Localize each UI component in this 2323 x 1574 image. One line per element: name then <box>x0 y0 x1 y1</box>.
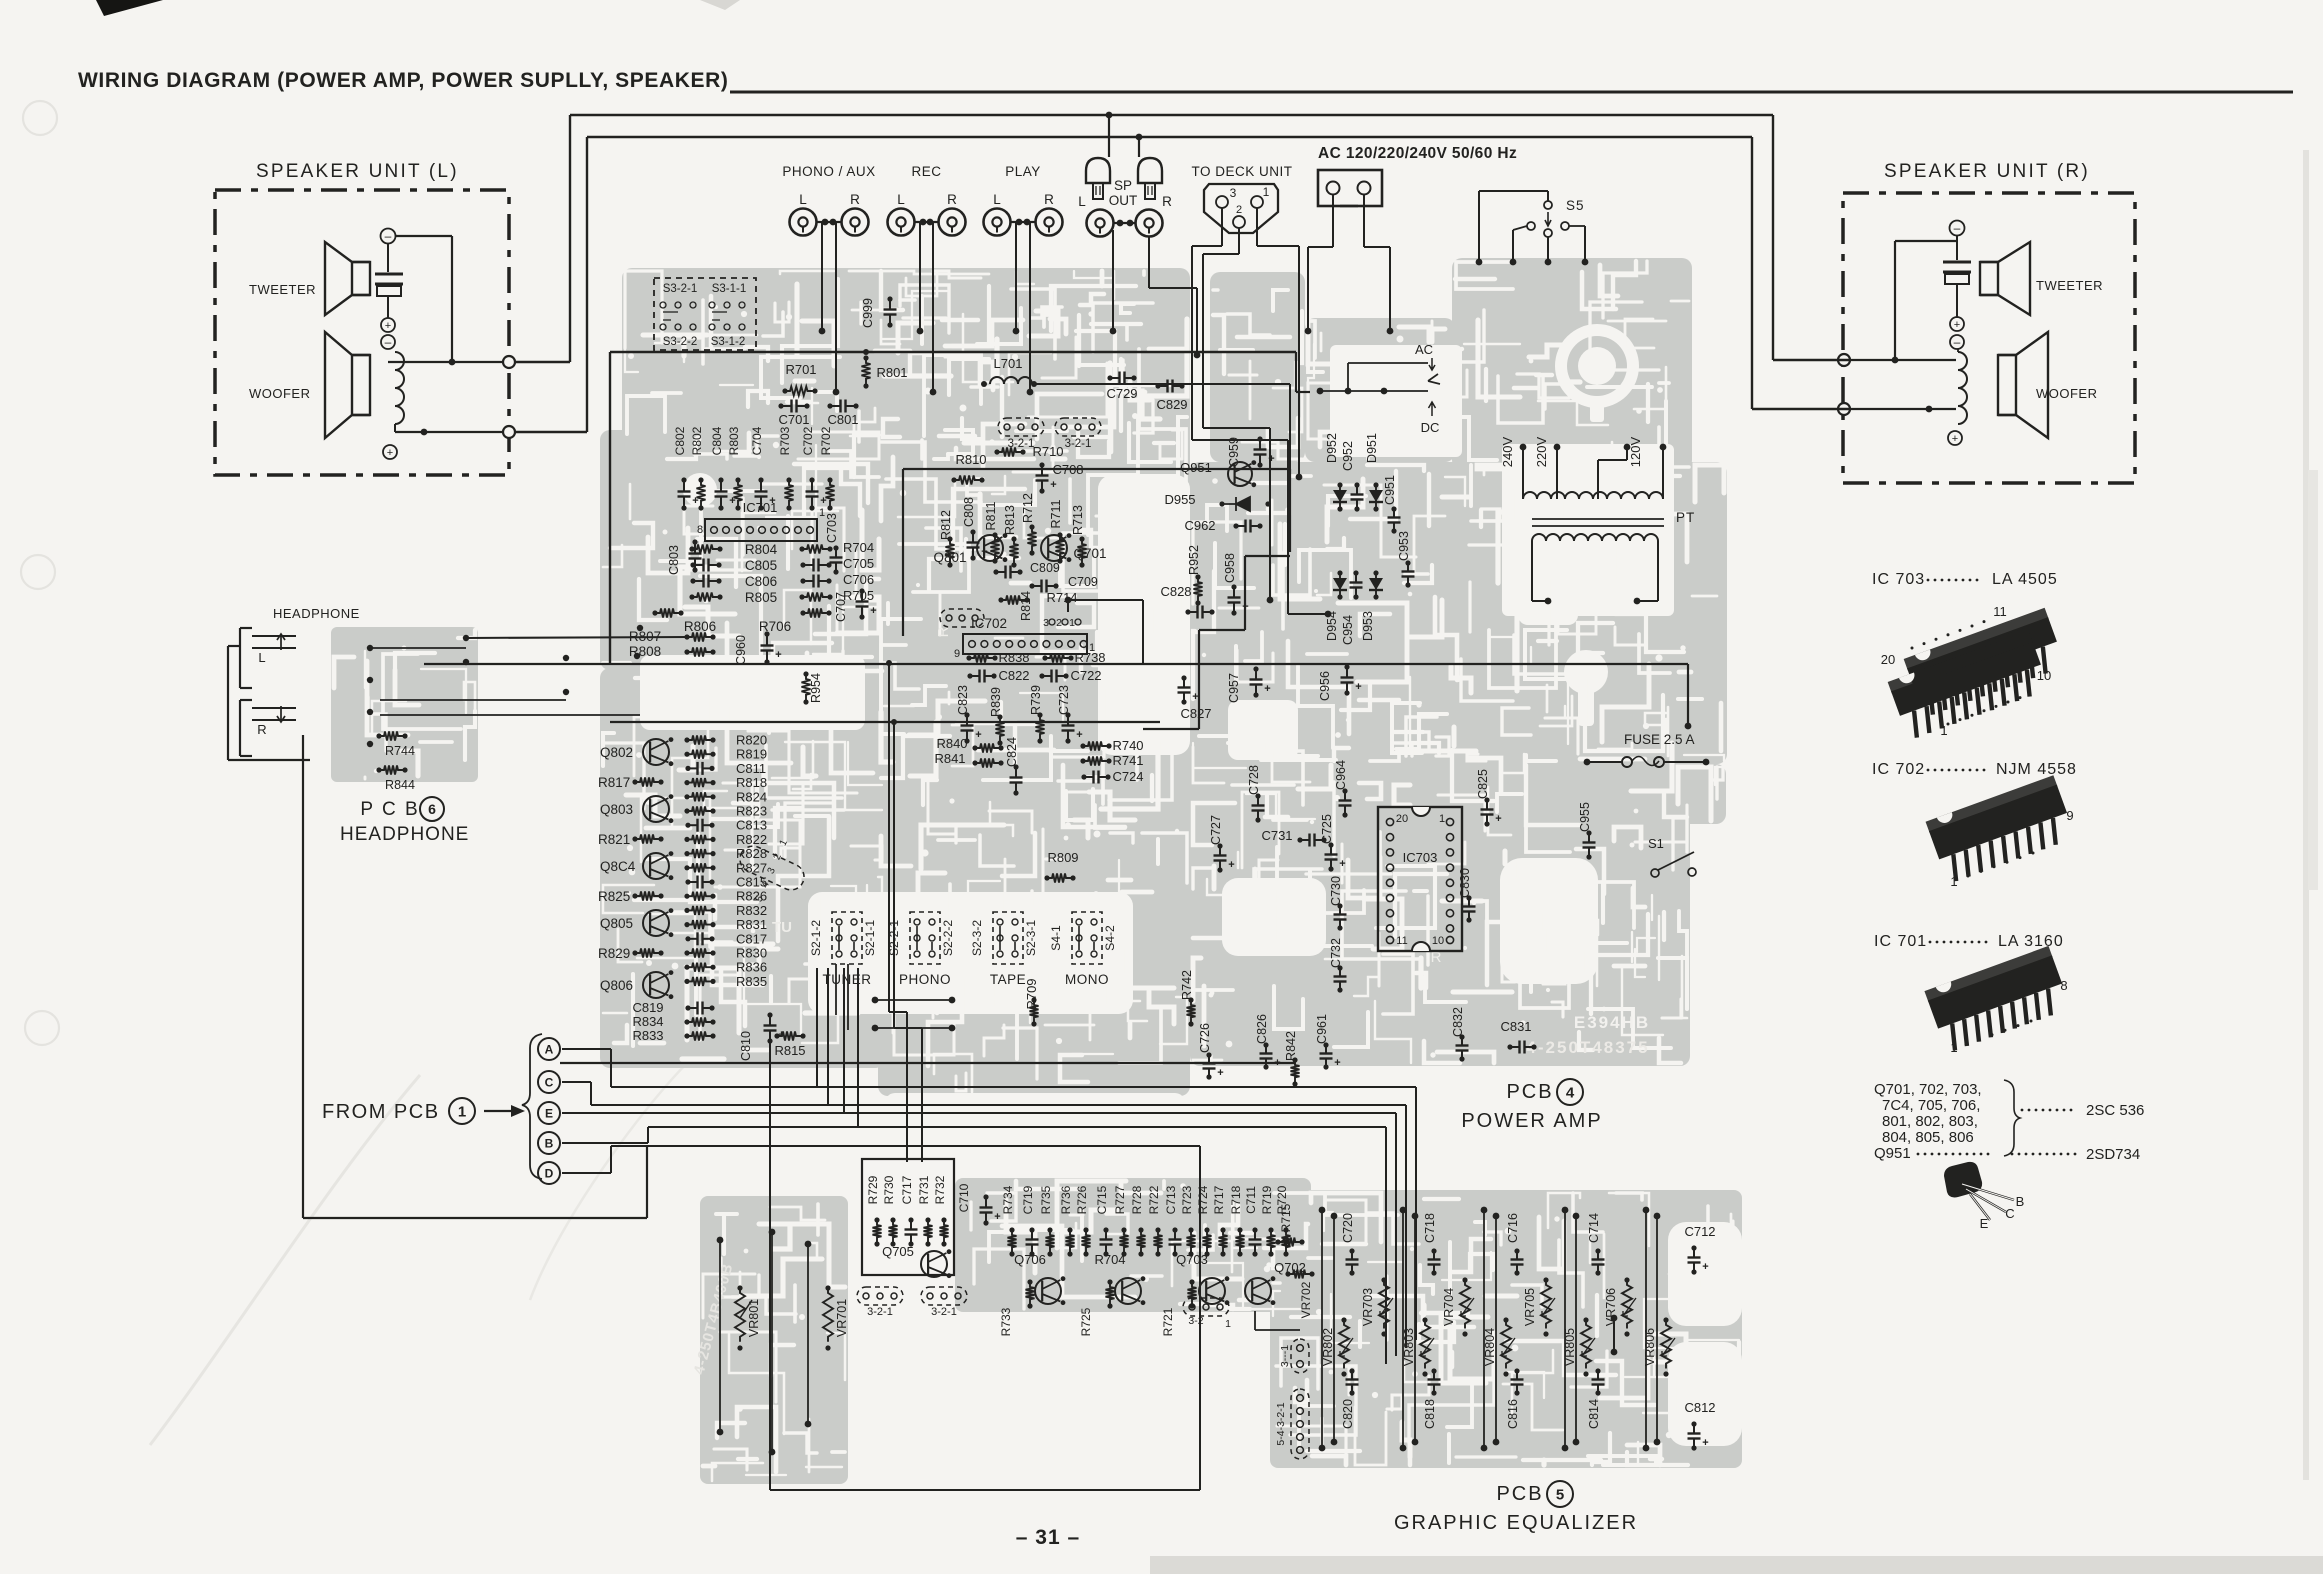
svg-text:E: E <box>1980 1216 1989 1231</box>
svg-text:+: + <box>975 729 981 741</box>
svg-text:R808: R808 <box>629 644 661 659</box>
svg-text:R805: R805 <box>745 590 777 605</box>
svg-text:S2-2-1: S2-2-1 <box>887 920 901 956</box>
svg-text:3-2-1: 3-2-1 <box>931 1306 957 1318</box>
svg-text:C712: C712 <box>1684 1224 1715 1239</box>
svg-text:L: L <box>897 192 905 207</box>
svg-text:R704: R704 <box>1094 1252 1125 1267</box>
svg-text:C722: C722 <box>1070 668 1101 683</box>
svg-text:TWEETER: TWEETER <box>2036 278 2103 293</box>
svg-text:R710: R710 <box>1032 444 1063 459</box>
svg-text:+: + <box>1076 729 1082 741</box>
svg-text:L: L <box>993 192 1001 207</box>
svg-text:R727: R727 <box>1113 1185 1127 1214</box>
svg-text:R736: R736 <box>1059 1185 1073 1214</box>
svg-text:R835: R835 <box>736 974 767 989</box>
svg-text:R741: R741 <box>1112 753 1143 768</box>
svg-text:Q705: Q705 <box>882 1244 914 1259</box>
svg-text:Q703: Q703 <box>1176 1252 1208 1267</box>
svg-text:8: 8 <box>2060 978 2067 993</box>
svg-text:C831: C831 <box>1500 1019 1531 1034</box>
svg-text:R831: R831 <box>736 917 767 932</box>
svg-text:R729: R729 <box>866 1175 880 1204</box>
svg-text:240V: 240V <box>1500 436 1515 467</box>
svg-text:D954: D954 <box>1325 611 1339 641</box>
svg-text:C726: C726 <box>1198 1023 1212 1053</box>
svg-text:3-2: 3-2 <box>1188 1315 1203 1327</box>
svg-text:1: 1 <box>1950 1040 1957 1055</box>
svg-text:PHONO / AUX: PHONO / AUX <box>782 164 875 179</box>
svg-text:IC703: IC703 <box>1403 850 1438 865</box>
svg-text:R821: R821 <box>598 832 630 847</box>
svg-text:FUSE 2.5 A: FUSE 2.5 A <box>1624 732 1695 747</box>
svg-text:Q806: Q806 <box>600 978 633 993</box>
svg-text:1: 1 <box>1940 723 1947 738</box>
svg-text:WIRING DIAGRAM (POWER AMP, PO: WIRING DIAGRAM (POWER AMP, POWER SUPLLY,… <box>78 69 729 92</box>
svg-text:R740: R740 <box>1112 738 1143 753</box>
svg-text:C802: C802 <box>673 426 687 455</box>
svg-text:R726: R726 <box>1075 1185 1089 1214</box>
svg-text:S2-3-2: S2-3-2 <box>970 920 984 956</box>
svg-text:R738: R738 <box>1074 650 1105 665</box>
svg-text:C824: C824 <box>1005 737 1019 767</box>
svg-text:R730: R730 <box>882 1175 896 1204</box>
svg-text:C955: C955 <box>1578 802 1592 832</box>
svg-text:2: 2 <box>1056 617 1062 629</box>
svg-text:C725: C725 <box>1320 814 1334 844</box>
svg-text:+: + <box>385 320 391 332</box>
svg-text:804, 805, 806: 804, 805, 806 <box>1882 1129 1974 1146</box>
svg-text:R833: R833 <box>632 1028 663 1043</box>
svg-text:L: L <box>799 192 807 207</box>
svg-text:C962: C962 <box>1184 518 1215 533</box>
svg-text:+: + <box>1702 1437 1708 1449</box>
svg-text:C818: C818 <box>1423 1399 1437 1429</box>
svg-text:C830: C830 <box>1458 868 1472 898</box>
svg-text:IC 701: IC 701 <box>1874 933 1927 950</box>
svg-text:– 31 –: – 31 – <box>1016 1526 1080 1549</box>
svg-text:+: + <box>1954 319 1960 331</box>
svg-text:PCB: PCB <box>1506 1081 1553 1103</box>
svg-text:PCB: PCB <box>1496 1483 1543 1505</box>
svg-text:TWEETER: TWEETER <box>249 282 316 297</box>
svg-text:PT: PT <box>1676 510 1695 525</box>
svg-text:5-4-3-2-1: 5-4-3-2-1 <box>1275 1402 1287 1445</box>
svg-text:Q803: Q803 <box>600 802 633 817</box>
svg-text:3-2-1: 3-2-1 <box>867 1306 893 1318</box>
svg-text:+: + <box>1339 858 1345 870</box>
svg-text:R744: R744 <box>385 744 415 758</box>
svg-text:C729: C729 <box>1106 386 1137 401</box>
svg-text:801, 802, 803,: 801, 802, 803, <box>1882 1113 1978 1130</box>
svg-text:LA 3160: LA 3160 <box>1998 933 2064 950</box>
svg-text:9: 9 <box>954 648 960 660</box>
svg-text:L: L <box>1078 194 1086 209</box>
svg-text:R806: R806 <box>684 619 716 634</box>
svg-text:R823: R823 <box>736 804 767 819</box>
svg-text:C826: C826 <box>1255 1014 1269 1044</box>
svg-text:WOOFER: WOOFER <box>2036 386 2098 401</box>
svg-text:SPEAKER UNIT (L): SPEAKER UNIT (L) <box>256 161 459 182</box>
svg-text:IC 703: IC 703 <box>1872 571 1925 588</box>
svg-text:R820: R820 <box>736 733 767 748</box>
svg-text:C716: C716 <box>1506 1213 1520 1243</box>
svg-text:C958: C958 <box>1223 553 1237 583</box>
svg-text:C720: C720 <box>1341 1213 1355 1243</box>
svg-text:R701: R701 <box>785 362 816 377</box>
svg-text:S4-1: S4-1 <box>1049 925 1063 951</box>
svg-text:C957: C957 <box>1227 673 1241 703</box>
svg-text:R804: R804 <box>745 542 778 557</box>
svg-text:R952: R952 <box>1187 545 1201 575</box>
svg-text:C706: C706 <box>843 572 874 587</box>
svg-text:C832: C832 <box>1451 1007 1465 1037</box>
svg-text:+: + <box>1495 813 1501 825</box>
svg-text:–: – <box>1954 335 1961 349</box>
svg-text:R954: R954 <box>809 673 823 703</box>
svg-text:R721: R721 <box>1161 1307 1175 1336</box>
svg-text:+: + <box>1274 1057 1280 1069</box>
svg-text:VR701: VR701 <box>835 1299 849 1337</box>
svg-text:OUT: OUT <box>1109 193 1138 208</box>
svg-text:3: 3 <box>1043 617 1049 629</box>
svg-text:2SC 536: 2SC 536 <box>2086 1102 2144 1119</box>
svg-text:C812: C812 <box>1684 1400 1715 1415</box>
svg-text:7C4, 705, 706,: 7C4, 705, 706, <box>1882 1097 1980 1114</box>
svg-text:WOOFER: WOOFER <box>249 386 311 401</box>
svg-text:C953: C953 <box>1397 531 1411 561</box>
svg-text:R830: R830 <box>736 946 767 961</box>
svg-text:MONO: MONO <box>1065 972 1109 987</box>
svg-text:SPEAKER UNIT (R): SPEAKER UNIT (R) <box>1884 161 2090 182</box>
svg-text:C816: C816 <box>1506 1399 1520 1429</box>
svg-text:R705: R705 <box>843 588 874 603</box>
svg-text:R840: R840 <box>936 736 967 751</box>
svg-text:Q706: Q706 <box>1014 1252 1046 1267</box>
svg-text:L701: L701 <box>994 356 1023 371</box>
svg-text:C731: C731 <box>1261 828 1292 843</box>
svg-text:Q802: Q802 <box>600 745 633 760</box>
svg-text:S3-1-1: S3-1-1 <box>712 283 747 295</box>
svg-text:E: E <box>545 1106 553 1120</box>
svg-text:–: – <box>1954 221 1961 235</box>
svg-text:20: 20 <box>1396 813 1408 825</box>
svg-text:R739: R739 <box>1029 685 1043 715</box>
svg-text:+: + <box>1264 683 1270 695</box>
svg-text:Q951: Q951 <box>1874 1145 1911 1162</box>
svg-text:TUNER: TUNER <box>823 972 872 987</box>
svg-text:R838: R838 <box>998 650 1029 665</box>
svg-text:TO DECK UNIT: TO DECK UNIT <box>1191 164 1292 179</box>
svg-text:R817: R817 <box>598 775 630 790</box>
svg-text:D951: D951 <box>1365 433 1379 463</box>
svg-text:R807: R807 <box>629 629 661 644</box>
svg-text:R834: R834 <box>632 1014 663 1029</box>
svg-text:R702: R702 <box>819 426 833 455</box>
svg-text:DC: DC <box>1421 420 1440 435</box>
svg-text:5: 5 <box>1556 1486 1564 1503</box>
svg-text:R801: R801 <box>876 365 907 380</box>
svg-text:S3-2-2: S3-2-2 <box>663 336 698 348</box>
svg-text:C960: C960 <box>734 635 748 665</box>
svg-text:C819: C819 <box>632 1000 663 1015</box>
svg-text:R814: R814 <box>1019 591 1033 621</box>
svg-text:20: 20 <box>1881 652 1895 667</box>
svg-text:+: + <box>870 605 876 617</box>
svg-text:C732: C732 <box>1329 938 1343 968</box>
svg-text:C801: C801 <box>827 412 858 427</box>
svg-text:R: R <box>1044 192 1054 207</box>
svg-text:E394HB: E394HB <box>1574 1013 1650 1032</box>
svg-text:AC 120/220/240V 50/60 Hz: AC 120/220/240V 50/60 Hz <box>1318 145 1517 162</box>
svg-text:120V: 120V <box>1628 436 1643 467</box>
svg-text:+: + <box>1217 1067 1223 1079</box>
svg-text:VR704: VR704 <box>1442 1288 1456 1326</box>
svg-text:C719: C719 <box>1021 1185 1035 1214</box>
svg-text:C823: C823 <box>956 685 970 715</box>
svg-text:R803: R803 <box>727 426 741 455</box>
svg-text:R809: R809 <box>1047 850 1078 865</box>
svg-text:C952: C952 <box>1341 441 1355 471</box>
svg-text:+: + <box>387 447 393 459</box>
svg-text:R713: R713 <box>1071 505 1085 535</box>
svg-text:3-2-1: 3-2-1 <box>1065 438 1092 450</box>
svg-text:+: + <box>1334 1057 1340 1069</box>
svg-text:R811: R811 <box>984 501 998 530</box>
svg-text:4: 4 <box>1566 1084 1575 1101</box>
svg-text:1: 1 <box>1439 813 1445 825</box>
svg-text:R722: R722 <box>1147 1185 1161 1214</box>
svg-text:R735: R735 <box>1039 1185 1053 1214</box>
svg-text:R733: R733 <box>999 1307 1013 1336</box>
svg-text:R: R <box>1162 194 1172 209</box>
svg-text:VR702: VR702 <box>1299 1281 1313 1318</box>
svg-text:+: + <box>775 649 781 661</box>
svg-text:C730: C730 <box>1329 876 1343 906</box>
svg-text:C703: C703 <box>825 513 839 543</box>
svg-text:GRAPHIC EQUALIZER: GRAPHIC EQUALIZER <box>1394 1512 1638 1534</box>
svg-text:S2-1-1: S2-1-1 <box>863 920 877 956</box>
svg-text:+: + <box>994 1211 1000 1223</box>
svg-text:1: 1 <box>458 1103 466 1120</box>
svg-text:S3-2-1: S3-2-1 <box>663 283 698 295</box>
svg-text:+: + <box>1228 859 1234 871</box>
svg-text:TAPE: TAPE <box>990 972 1026 987</box>
svg-text:1: 1 <box>1950 874 1957 889</box>
svg-text:C710: C710 <box>957 1183 971 1212</box>
svg-text:S3-1-2: S3-1-2 <box>711 336 746 348</box>
svg-text:LA 4505: LA 4505 <box>1992 571 2058 588</box>
svg-text:R819: R819 <box>736 747 767 762</box>
svg-text:S4-2: S4-2 <box>1103 925 1117 951</box>
svg-text:R822: R822 <box>736 832 767 847</box>
svg-text:220V: 220V <box>1534 436 1549 467</box>
svg-text:R832: R832 <box>736 903 767 918</box>
svg-text:R719: R719 <box>1260 1185 1274 1214</box>
svg-text:Q951: Q951 <box>1180 460 1212 475</box>
svg-text:4-250T48375: 4-250T48375 <box>1526 1038 1649 1057</box>
svg-text:C954: C954 <box>1341 615 1355 645</box>
svg-text:R815: R815 <box>774 1043 805 1058</box>
svg-text:R839: R839 <box>989 687 1003 717</box>
svg-text:IC702: IC702 <box>971 616 1007 631</box>
svg-text:11: 11 <box>1396 935 1407 947</box>
svg-text:R810: R810 <box>955 452 986 467</box>
svg-text:S2-2-2: S2-2-2 <box>941 920 955 956</box>
svg-text:C701: C701 <box>778 412 809 427</box>
svg-text:Q801: Q801 <box>933 550 966 565</box>
svg-text:C814: C814 <box>1587 1399 1601 1429</box>
svg-text:R718: R718 <box>1229 1185 1243 1214</box>
svg-text:REC: REC <box>911 164 941 179</box>
svg-text:2SD734: 2SD734 <box>2086 1146 2140 1163</box>
svg-text:C806: C806 <box>745 574 777 589</box>
svg-text:C951: C951 <box>1383 475 1397 505</box>
svg-text:10: 10 <box>1432 935 1444 947</box>
svg-text:2: 2 <box>1236 204 1242 216</box>
svg-text:C813: C813 <box>736 818 767 833</box>
svg-text:A: A <box>545 1042 554 1056</box>
svg-text:C820: C820 <box>1341 1399 1355 1429</box>
svg-text:Q701: Q701 <box>1073 546 1106 561</box>
svg-text:C811: C811 <box>736 761 766 776</box>
svg-text:C817: C817 <box>736 931 767 946</box>
svg-text:C808: C808 <box>962 497 976 527</box>
svg-text:R: R <box>257 722 266 737</box>
svg-text:R825: R825 <box>598 889 630 904</box>
svg-text:C828: C828 <box>1160 584 1191 599</box>
svg-text:D955: D955 <box>1164 492 1195 507</box>
svg-text:C999: C999 <box>861 298 875 328</box>
svg-text:B: B <box>545 1136 554 1150</box>
svg-text:R844: R844 <box>385 778 415 792</box>
svg-text:NJM 4558: NJM 4558 <box>1996 761 2077 778</box>
svg-text:11: 11 <box>1993 604 2007 619</box>
svg-text:AC: AC <box>1415 342 1433 357</box>
svg-text:R: R <box>935 626 952 637</box>
svg-text:VR803: VR803 <box>1402 1328 1416 1366</box>
svg-text:+: + <box>1192 691 1198 703</box>
svg-text:+: + <box>1355 681 1361 693</box>
svg-text:IC701: IC701 <box>743 500 778 515</box>
svg-text:R841: R841 <box>934 751 965 766</box>
svg-text:R732: R732 <box>933 1175 947 1204</box>
svg-text:VR801: VR801 <box>747 1299 761 1337</box>
svg-text:C829: C829 <box>1156 397 1187 412</box>
svg-text:C711: C711 <box>1244 1186 1258 1214</box>
svg-text:–: – <box>385 335 392 349</box>
svg-text:+: + <box>1268 453 1274 465</box>
svg-text:R728: R728 <box>1130 1185 1144 1214</box>
svg-text:C809: C809 <box>1030 561 1060 575</box>
svg-text:9: 9 <box>2066 808 2073 823</box>
svg-text:C: C <box>545 1075 554 1089</box>
svg-text:HEADPHONE: HEADPHONE <box>273 606 360 621</box>
svg-text:C724: C724 <box>1112 769 1143 784</box>
svg-text:PHONO: PHONO <box>899 972 951 987</box>
svg-text:C717: C717 <box>900 1175 914 1204</box>
svg-text:B: B <box>2016 1194 2025 1209</box>
svg-text:R717: R717 <box>1212 1185 1226 1214</box>
svg-text:HEADPHONE: HEADPHONE <box>340 824 469 845</box>
svg-text:C822: C822 <box>998 668 1029 683</box>
svg-text:8: 8 <box>697 524 703 536</box>
svg-text:R711: R711 <box>1049 499 1063 528</box>
svg-text:R715: R715 <box>1279 1203 1293 1232</box>
svg-text:R: R <box>947 192 957 207</box>
svg-text:Q805: Q805 <box>600 916 633 931</box>
svg-text:Q701, 702, 703,: Q701, 702, 703, <box>1874 1081 1982 1098</box>
svg-text:S2-1-2: S2-1-2 <box>809 920 823 956</box>
svg-text:C727: C727 <box>1209 815 1223 845</box>
svg-text:C728: C728 <box>1247 765 1261 795</box>
svg-text:C702: C702 <box>801 426 815 455</box>
svg-text:C956: C956 <box>1318 671 1332 701</box>
svg-text:C714: C714 <box>1587 1213 1601 1243</box>
svg-text:+: + <box>1702 1261 1708 1273</box>
svg-text:R706: R706 <box>759 619 791 634</box>
svg-text:Q8C4: Q8C4 <box>600 859 636 874</box>
svg-text:R818: R818 <box>736 775 767 790</box>
svg-text:C709: C709 <box>1068 575 1098 589</box>
svg-text:S5: S5 <box>1566 198 1585 213</box>
svg-text:VR802: VR802 <box>1321 1328 1335 1366</box>
svg-text:R836: R836 <box>736 960 767 975</box>
svg-text:D952: D952 <box>1325 433 1339 463</box>
svg-text:R829: R829 <box>598 946 630 961</box>
svg-text:R842: R842 <box>1284 1031 1298 1061</box>
svg-text:1: 1 <box>1069 617 1075 629</box>
svg-text:P C B: P C B <box>360 799 419 820</box>
svg-text:R712: R712 <box>1021 493 1035 523</box>
svg-text:R813: R813 <box>1003 505 1017 535</box>
svg-text:TU: TU <box>772 919 792 936</box>
svg-text:C825: C825 <box>1476 769 1490 799</box>
svg-text:D: D <box>545 1166 554 1180</box>
svg-text:C961: C961 <box>1315 1014 1329 1044</box>
svg-text:+: + <box>1242 601 1248 613</box>
svg-text:R704: R704 <box>843 540 874 555</box>
svg-text:R703: R703 <box>778 426 792 455</box>
svg-text:POWER AMP: POWER AMP <box>1461 1110 1602 1132</box>
svg-text:IC 702: IC 702 <box>1872 761 1925 778</box>
svg-text:S2-3-1: S2-3-1 <box>1024 920 1038 956</box>
svg-text:R824: R824 <box>736 789 767 804</box>
svg-text:C804: C804 <box>710 426 724 455</box>
svg-text:S1: S1 <box>1648 836 1664 851</box>
svg-text:FROM PCB: FROM PCB <box>322 1101 440 1123</box>
svg-text:C715: C715 <box>1095 1185 1109 1214</box>
svg-text:R714: R714 <box>1046 590 1077 605</box>
svg-text:L: L <box>258 650 265 665</box>
svg-text:1: 1 <box>1225 1318 1231 1330</box>
svg-text:+: + <box>1952 433 1958 445</box>
svg-text:R812: R812 <box>939 510 953 540</box>
svg-text:3: 3 <box>1230 186 1237 200</box>
svg-text:R731: R731 <box>917 1175 931 1204</box>
svg-text:+: + <box>1050 479 1056 491</box>
svg-text:VR705: VR705 <box>1523 1288 1537 1326</box>
svg-text:C718: C718 <box>1423 1213 1437 1243</box>
svg-text:C704: C704 <box>750 426 764 455</box>
svg-text:R734: R734 <box>1001 1185 1015 1214</box>
svg-text:1: 1 <box>1263 185 1270 199</box>
svg-text:C713: C713 <box>1164 1185 1178 1214</box>
svg-text:R802: R802 <box>690 426 704 455</box>
svg-text:C827: C827 <box>1180 706 1211 721</box>
svg-text:3---1: 3---1 <box>1279 1345 1291 1367</box>
svg-text:D953: D953 <box>1361 611 1375 641</box>
